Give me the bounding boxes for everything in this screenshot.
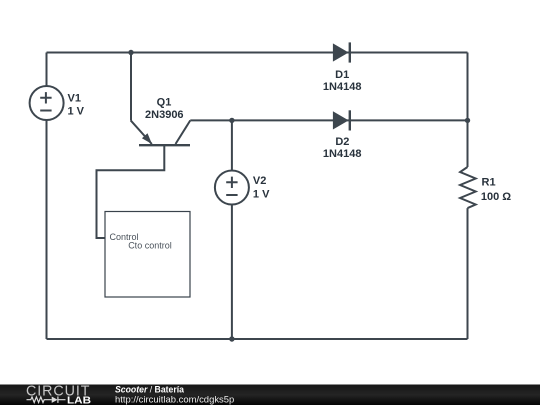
node: junction V2 lower / bottom rail bbox=[229, 336, 234, 341]
node: junction top rail / Q1 emitter bbox=[128, 50, 133, 55]
node: junction D2 / right rail bbox=[465, 118, 470, 123]
wire: V2 upper lead bbox=[231, 120, 233, 170]
wire: right rail lower segment (R1 to bottom rail) bbox=[467, 208, 469, 339]
svg-text:http://circuitlab.com/cdgks5p: http://circuitlab.com/cdgks5p bbox=[115, 394, 234, 405]
svg-text:D2: D2 bbox=[335, 136, 349, 148]
wire: top rail from V1 to right rail bbox=[47, 52, 468, 54]
svg-text:D1: D1 bbox=[335, 69, 349, 81]
wire: left rail lower segment (V1 to bottom rail) bbox=[46, 120, 48, 339]
svg-text:Cto control: Cto control bbox=[128, 241, 172, 251]
wire: bottom rail bbox=[47, 338, 468, 340]
svg-text:V2: V2 bbox=[253, 175, 266, 187]
diode D1 bbox=[333, 42, 350, 62]
node: junction Q1 collector / V2 / D2 bbox=[229, 118, 234, 123]
CircuitLab logo: resistor-diode glyph bbox=[27, 397, 66, 403]
svg-text:R1: R1 bbox=[482, 177, 496, 189]
svg-text:100 Ω: 100 Ω bbox=[481, 191, 511, 203]
wire: V2 lower lead bbox=[231, 205, 233, 340]
diode D2 bbox=[333, 110, 350, 130]
svg-text:1 V: 1 V bbox=[253, 189, 270, 201]
resistor R1 bbox=[460, 167, 476, 208]
wire: Q1 base to control box bbox=[97, 145, 165, 238]
wire: Q1 emitter feed from top rail bbox=[130, 53, 132, 121]
transistor Q1 (PNP 2N3906) bbox=[131, 120, 191, 145]
svg-text:LAB: LAB bbox=[67, 396, 91, 405]
wire: right rail upper segment (top rail to R1) bbox=[467, 53, 469, 168]
svg-text:1N4148: 1N4148 bbox=[323, 148, 362, 160]
svg-text:2N3906: 2N3906 bbox=[145, 109, 184, 121]
voltage source V2 bbox=[215, 171, 249, 205]
svg-text:V1: V1 bbox=[68, 93, 81, 105]
svg-text:Q1: Q1 bbox=[157, 97, 172, 109]
svg-text:1N4148: 1N4148 bbox=[323, 81, 362, 93]
footer bar bbox=[0, 385, 540, 405]
wire: left rail upper segment (V1 to top rail) bbox=[46, 53, 48, 87]
voltage source V1 bbox=[30, 86, 64, 120]
wire: Q1 collector to D2 row to right rail bbox=[190, 119, 467, 121]
svg-text:1 V: 1 V bbox=[68, 105, 85, 117]
control box (subcircuit) bbox=[105, 212, 190, 298]
